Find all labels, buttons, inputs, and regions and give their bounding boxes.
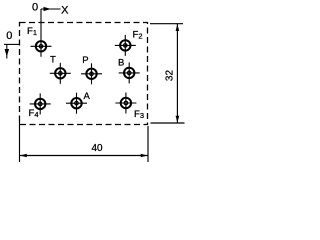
svg-text:40: 40 [91,143,103,154]
svg-text:32: 32 [165,70,176,82]
svg-text:F4: F4 [29,108,39,119]
svg-text:0: 0 [6,30,12,42]
svg-text:P: P [82,55,88,66]
svg-text:F1: F1 [27,26,37,37]
svg-text:A: A [84,91,91,102]
svg-text:F3: F3 [134,109,144,120]
svg-text:B: B [118,58,124,69]
svg-text:X: X [61,5,69,17]
svg-text:T: T [50,55,56,66]
svg-text:0: 0 [32,1,38,13]
svg-text:F2: F2 [133,30,143,41]
